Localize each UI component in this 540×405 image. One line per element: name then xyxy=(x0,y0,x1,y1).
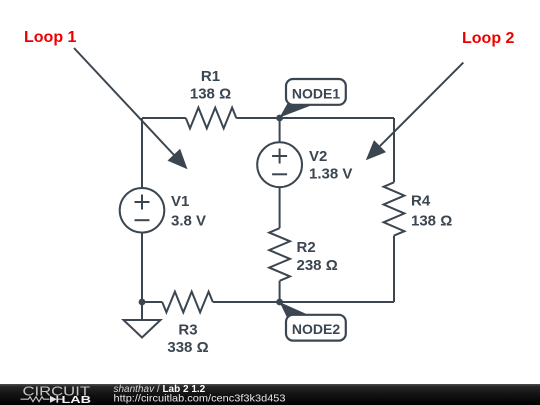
label R1 value xyxy=(167,68,452,356)
footer logo diode xyxy=(50,396,57,403)
resistor R2 xyxy=(269,228,290,281)
annotation Loop 2 arrow xyxy=(366,63,464,161)
svg-text:V2: V2 xyxy=(309,148,327,165)
svg-text:V1: V1 xyxy=(171,193,189,210)
node flag NODE1 xyxy=(280,79,346,118)
wire bottom-left to R3 xyxy=(142,301,162,303)
svg-text:Loop 1: Loop 1 xyxy=(24,29,77,46)
voltage source V2 xyxy=(257,142,302,187)
wire node1 to V2 xyxy=(279,118,281,142)
wire R3 to bottom-right corner xyxy=(213,301,394,303)
svg-text:R3: R3 xyxy=(178,322,197,339)
footer bar xyxy=(0,384,540,405)
wire top-left corner to R1 xyxy=(142,117,186,119)
svg-text:338 Ω: 338 Ω xyxy=(167,339,208,356)
svg-text:R1: R1 xyxy=(201,68,220,85)
svg-text:138 Ω: 138 Ω xyxy=(190,86,231,103)
svg-text:1.38 V: 1.38 V xyxy=(309,166,352,183)
svg-text:3.8 V: 3.8 V xyxy=(171,213,206,230)
ground xyxy=(124,302,161,338)
wire R2 to node2 xyxy=(279,281,281,302)
wire V2 to R2 xyxy=(279,187,281,228)
wire R1 to top-right corner xyxy=(236,117,394,119)
svg-text:NODE2: NODE2 xyxy=(292,321,340,337)
wire left vertical lower xyxy=(141,233,143,302)
node junction dot bottom-left xyxy=(139,299,146,306)
svg-text:138 Ω: 138 Ω xyxy=(411,213,452,230)
resistor R3 xyxy=(162,292,213,313)
resistor R1 xyxy=(186,108,237,129)
wire right vertical lower xyxy=(393,236,395,302)
node flag NODE2 xyxy=(280,302,346,341)
voltage source V1 xyxy=(120,188,165,233)
svg-text:LAB: LAB xyxy=(62,395,92,405)
svg-text:Loop 2: Loop 2 xyxy=(462,30,515,47)
node A junction dot NODE1 xyxy=(276,115,283,122)
svg-text:238 Ω: 238 Ω xyxy=(297,257,338,274)
resistor R4 xyxy=(384,182,405,235)
svg-text:R4: R4 xyxy=(411,193,431,210)
node B junction dot NODE2 xyxy=(276,299,283,306)
footer logo schematic: wire resistor diode xyxy=(21,397,64,402)
svg-text:R2: R2 xyxy=(297,239,316,256)
wire right vertical upper xyxy=(393,118,395,182)
svg-text:NODE1: NODE1 xyxy=(292,86,340,102)
annotation Loop 1 arrow xyxy=(74,48,188,169)
wire left vertical upper xyxy=(141,118,143,188)
svg-text:http://circuitlab.com/cenc3f3k: http://circuitlab.com/cenc3f3k3d453 xyxy=(114,393,286,405)
